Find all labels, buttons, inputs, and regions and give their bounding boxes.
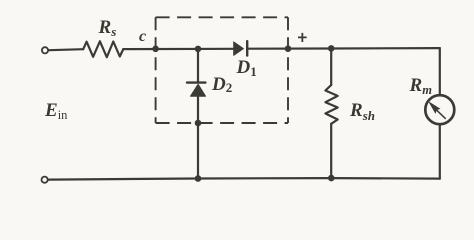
wire D2 branch vertical (197, 49, 199, 82)
resistor Rsh body (325, 85, 337, 124)
input terminal bottom (42, 177, 48, 183)
wire right drop to meter (439, 48, 441, 94)
node D2-bottom junction dot (195, 175, 202, 182)
diode D1 (234, 42, 244, 55)
wire Rsh branch (330, 49, 332, 86)
node D2-top junction dot (195, 46, 202, 53)
node Rsh-top junction dot (328, 45, 335, 52)
wire node c to D1 (123, 48, 233, 50)
diode D2 cathode bar (187, 81, 205, 83)
dashed enclosure box (156, 17, 288, 123)
wire top-left (49, 49, 83, 50)
diode D2 (191, 84, 206, 96)
node box-exit junction dot (285, 45, 292, 52)
input terminal top (42, 47, 48, 53)
meter Rm body (425, 95, 454, 124)
wire D1 to corner (247, 47, 440, 50)
node c junction dot (152, 46, 159, 53)
wire D2 to bottom (197, 96, 199, 179)
label plus polarity (298, 33, 307, 42)
resistor Rs body (83, 41, 123, 57)
wire meter to bottom (439, 125, 441, 179)
wire bottom (48, 178, 439, 180)
meter Rm needle (436, 110, 445, 119)
diode D1 cathode bar (246, 41, 248, 55)
wire Rsh to bottom (330, 124, 332, 178)
node box-bottom junction dot (195, 120, 202, 127)
svg-text:c: c (139, 28, 146, 45)
node Rsh-bottom junction dot (328, 175, 335, 182)
